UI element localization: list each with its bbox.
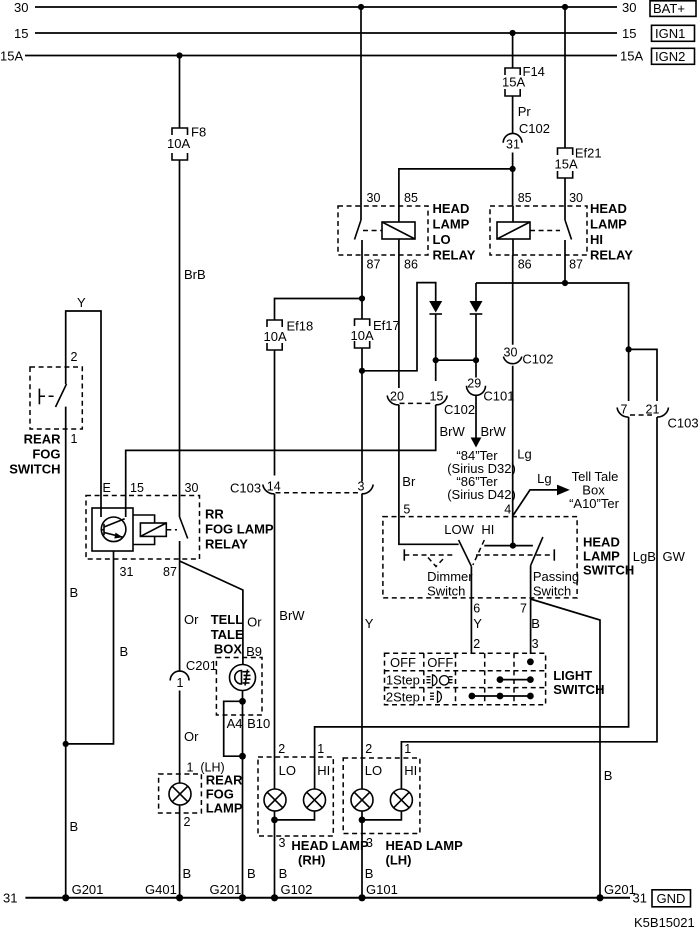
wire HI relay 87 horizontal rail xyxy=(564,255,566,283)
svg-text:Ef18: Ef18 xyxy=(287,319,314,334)
wire D2 anode xyxy=(475,283,477,301)
HI relay coil xyxy=(497,222,530,239)
HI relay switch blade xyxy=(565,220,572,240)
mechanical link dashed V xyxy=(428,558,445,567)
net 15A (IGN2) bus xyxy=(25,55,617,57)
svg-text:HI: HI xyxy=(590,232,603,247)
tell tale lamp circle xyxy=(230,665,256,691)
connector C102 pin 31 xyxy=(503,121,550,152)
label HEAD LAMP (RH) xyxy=(291,838,369,868)
wire to Ef18 xyxy=(275,299,363,321)
node: ground G201 right xyxy=(596,894,603,901)
svg-text:1Step: 1Step xyxy=(386,673,420,688)
svg-text:“A10”Ter: “A10”Ter xyxy=(569,496,620,511)
wire coil feed to LO relay pin 85 xyxy=(399,169,513,206)
fuse F8 10A xyxy=(167,125,206,161)
svg-text:C201: C201 xyxy=(186,658,217,673)
connector C103 pin 21 xyxy=(646,403,699,431)
svg-text:30: 30 xyxy=(504,346,518,360)
net 31 ground bus xyxy=(25,897,630,899)
wire B: passing switch to ground G201 xyxy=(531,599,600,898)
transistor collector xyxy=(104,519,125,527)
svg-text:2: 2 xyxy=(71,350,78,364)
wire between diode outputs xyxy=(436,359,476,361)
icon head lamp row 2Step xyxy=(430,691,441,702)
node: ground G201 center xyxy=(239,894,246,901)
LO relay pin 30 lead xyxy=(360,206,362,220)
wire BrW: C103-14 to head lamp RH LO xyxy=(274,494,276,789)
light switch column 1 box xyxy=(423,653,425,705)
svg-text:G201: G201 xyxy=(604,882,636,897)
svg-text:3: 3 xyxy=(532,637,539,651)
light switch row divider xyxy=(385,670,546,672)
head lamp RH LO bulb xyxy=(264,789,286,811)
svg-text:GND: GND xyxy=(657,891,686,906)
svg-text:Or: Or xyxy=(184,729,199,744)
wire HI contact xyxy=(484,545,533,547)
svg-text:Y: Y xyxy=(473,616,482,631)
svg-text:Pr: Pr xyxy=(518,104,532,119)
wire C102-31 to relay coil feed junction xyxy=(512,153,514,207)
svg-text:2Step: 2Step xyxy=(386,690,420,705)
svg-text:B: B xyxy=(183,866,192,881)
wire Lg: C102-30 to head lamp switch pin 4 xyxy=(512,366,514,546)
node: junction Ef17 out / diode branch xyxy=(359,368,365,374)
svg-text:LAMP: LAMP xyxy=(206,801,243,816)
svg-text:C102: C102 xyxy=(444,402,475,417)
RR relay pin 87 lead xyxy=(179,541,181,671)
wire Ef18 to connector C103-14 xyxy=(274,350,276,476)
wire B: tell tale to ground xyxy=(242,701,244,898)
passing switch pole wire xyxy=(530,566,532,654)
node: pin 4 junction on HI contact xyxy=(510,543,516,549)
svg-text:HEAD LAMP: HEAD LAMP xyxy=(386,838,464,853)
svg-text:15: 15 xyxy=(622,26,636,41)
wire pin A4 loop xyxy=(224,701,243,756)
wire bus15 to fuse F14 xyxy=(512,33,514,68)
svg-text:87: 87 xyxy=(163,565,177,579)
label LIGHT SWITCH xyxy=(553,668,604,697)
svg-text:Switch: Switch xyxy=(533,584,571,599)
light switch 2Step contacts xyxy=(469,693,534,700)
svg-text:31: 31 xyxy=(120,565,134,579)
wire LgB: C103-7 to head lamp RH HI xyxy=(315,417,629,789)
svg-text:(Sirius D42): (Sirius D42) xyxy=(447,487,516,502)
svg-text:B: B xyxy=(70,585,79,600)
relay: RR FOG LAMP RELAY box xyxy=(86,496,200,560)
wire branch to pin 21 xyxy=(629,349,657,401)
svg-text:B10: B10 xyxy=(247,716,270,731)
wire RH common xyxy=(275,811,315,820)
node: junction on 87 rail xyxy=(562,280,568,286)
svg-text:87: 87 xyxy=(367,258,381,272)
label Dimmer Switch xyxy=(427,569,473,599)
RR relay coil xyxy=(140,523,166,536)
svg-text:Y: Y xyxy=(365,616,374,631)
svg-text:2: 2 xyxy=(365,742,372,756)
svg-text:B: B xyxy=(247,866,256,881)
wire Y: C103-3 to head lamp LH LO xyxy=(361,494,363,789)
svg-text:LIGHT: LIGHT xyxy=(553,668,592,683)
svg-text:G401: G401 xyxy=(145,882,177,897)
node: junction to C103-7/21 branch xyxy=(626,346,632,352)
node: junction below pins xyxy=(239,753,246,760)
svg-text:IGN2: IGN2 xyxy=(655,49,685,64)
label "84"Ter (Sirius D32) "86"Ter (Sirius D42) xyxy=(447,448,516,502)
svg-text:BrW: BrW xyxy=(440,424,466,439)
svg-text:30: 30 xyxy=(14,0,28,15)
svg-text:Y: Y xyxy=(77,295,86,310)
net 30 (BAT+) bus xyxy=(35,6,617,8)
svg-text:Ef17: Ef17 xyxy=(373,318,400,333)
transistor base bar xyxy=(103,524,105,536)
svg-text:BAT+: BAT+ xyxy=(653,1,685,16)
svg-text:LO: LO xyxy=(365,763,382,778)
wire Ef17 to connector C103-3 xyxy=(361,348,363,482)
svg-text:Ef21: Ef21 xyxy=(575,146,602,161)
label HEAD LAMP HI RELAY xyxy=(590,201,633,263)
node: junction bus15 / F14 xyxy=(509,30,515,36)
dimmer switch blade xyxy=(459,540,472,566)
svg-text:G201: G201 xyxy=(210,882,242,897)
LO relay pin 87 lead inside xyxy=(361,240,363,255)
svg-text:C103: C103 xyxy=(230,481,261,496)
svg-text:HEAD: HEAD xyxy=(583,535,620,550)
mechanical link right tick xyxy=(553,549,555,560)
svg-text:LOW: LOW xyxy=(444,522,474,537)
svg-text:85: 85 xyxy=(518,191,532,205)
head lamp RH HI bulb xyxy=(304,789,326,811)
node: junction bus30 / LO relay feed xyxy=(358,4,364,10)
rear fog switch contact tick xyxy=(38,389,40,405)
wire Y: dimmer pole to light switch pin 2 xyxy=(470,566,472,654)
HI relay pin 86 lead xyxy=(512,239,514,255)
branch arrow Lg to Tell Tale Box xyxy=(513,485,570,516)
svg-text:TALE: TALE xyxy=(211,627,244,642)
svg-text:B: B xyxy=(604,768,613,783)
BAT+ supply box xyxy=(650,1,696,17)
svg-text:15A: 15A xyxy=(555,157,578,172)
lamp: TELL TALE BOX xyxy=(216,658,262,716)
RR relay coil connection loop bottom xyxy=(133,536,155,544)
rear fog switch pin 1 lead xyxy=(65,407,67,898)
label HEAD LAMP LO RELAY xyxy=(433,201,476,263)
switch: REAR FOG SWITCH box xyxy=(30,367,82,429)
svg-text:SWITCH: SWITCH xyxy=(583,563,634,578)
svg-text:2: 2 xyxy=(278,742,285,756)
svg-text:15: 15 xyxy=(14,26,28,41)
fuse Ef18 10A xyxy=(264,319,314,351)
svg-text:87: 87 xyxy=(569,258,583,272)
connector C103 pin 7 xyxy=(617,403,629,418)
svg-text:BrW: BrW xyxy=(279,608,305,623)
svg-text:31: 31 xyxy=(3,891,17,906)
wire Pr: F14 to connector C102-31 xyxy=(512,96,514,134)
label HEAD LAMP SWITCH xyxy=(583,535,634,578)
dimmer switch HI dashed blade xyxy=(473,540,484,565)
svg-text:LgB: LgB xyxy=(633,549,656,564)
svg-text:HEAD: HEAD xyxy=(590,201,627,216)
svg-text:LAMP: LAMP xyxy=(583,549,620,564)
svg-text:1: 1 xyxy=(71,432,78,446)
svg-text:OFF: OFF xyxy=(427,655,453,670)
svg-text:10A: 10A xyxy=(264,329,287,344)
svg-text:FOG: FOG xyxy=(32,447,60,462)
wire RH common to ground xyxy=(274,820,276,898)
svg-text:30: 30 xyxy=(185,481,199,495)
svg-text:TELL: TELL xyxy=(211,612,244,627)
HI relay pin 30 lead xyxy=(564,206,566,220)
wire tell tale lamp to pins xyxy=(242,691,244,702)
transistor emitter with arrow xyxy=(104,533,123,539)
fuse F14 15A xyxy=(502,64,545,96)
wire rear fog lamp pin 2 to ground xyxy=(179,805,181,898)
svg-text:LAMP: LAMP xyxy=(590,217,627,232)
svg-text:1: 1 xyxy=(177,676,184,690)
label REAR FOG LAMP xyxy=(206,773,243,816)
lamp: REAR FOG LAMP box xyxy=(159,774,202,813)
wire LO relay 87 down through Ef17 xyxy=(361,255,363,319)
node: ground G102 xyxy=(271,894,278,901)
svg-text:2: 2 xyxy=(473,637,480,651)
svg-text:Lg: Lg xyxy=(517,447,531,462)
svg-text:B9: B9 xyxy=(246,644,262,659)
wire LH common to ground xyxy=(361,820,363,898)
svg-text:15A: 15A xyxy=(620,49,643,64)
wire bus30 to Ef21 xyxy=(564,7,566,148)
svg-text:6: 6 xyxy=(473,602,480,616)
svg-text:RELAY: RELAY xyxy=(590,248,633,263)
svg-text:LO: LO xyxy=(279,763,296,778)
svg-text:1: 1 xyxy=(317,742,324,756)
label HEAD LAMP (LH) xyxy=(386,838,464,868)
wire bus30 to LO relay pin 30 xyxy=(360,7,362,206)
svg-text:G101: G101 xyxy=(366,882,398,897)
relay: HEAD LAMP HI RELAY box xyxy=(490,206,587,255)
svg-text:B: B xyxy=(531,616,540,631)
icon low beam row 1Step xyxy=(427,675,453,686)
RR relay coil connection loop top xyxy=(133,515,155,523)
svg-text:SWITCH: SWITCH xyxy=(9,462,60,477)
wire Or: C201 to rear fog lamp xyxy=(179,691,181,784)
connector C101 pin 29 xyxy=(467,377,515,404)
node: ground G101 xyxy=(358,894,365,901)
LO relay pin 86 lead xyxy=(398,239,400,255)
svg-text:3: 3 xyxy=(279,836,286,850)
svg-text:3: 3 xyxy=(358,480,365,494)
svg-text:G102: G102 xyxy=(281,882,313,897)
IGN2 supply box xyxy=(652,48,695,64)
svg-text:BOX: BOX xyxy=(214,642,243,657)
svg-text:HI: HI xyxy=(481,522,494,537)
LO relay pin 85 lead xyxy=(398,206,400,222)
switch: HEAD LAMP SWITCH box xyxy=(383,517,577,598)
HI relay mechanical link dashed xyxy=(530,230,560,232)
wire diode D1 feed loop xyxy=(362,283,436,371)
svg-text:Switch: Switch xyxy=(427,584,465,599)
svg-text:C102: C102 xyxy=(519,121,550,136)
wire D1 cathode down xyxy=(435,314,437,381)
svg-text:REAR: REAR xyxy=(24,432,61,447)
mechanical link dashed right xyxy=(476,554,554,556)
svg-text:1: 1 xyxy=(404,742,411,756)
svg-text:30: 30 xyxy=(569,191,583,205)
svg-text:GW: GW xyxy=(663,549,686,564)
svg-text:29: 29 xyxy=(467,377,481,391)
node: RH lamp common junction xyxy=(271,817,278,824)
svg-text:OFF: OFF xyxy=(390,655,416,670)
wire D2 cathode down xyxy=(475,314,477,378)
connector C102 pin 15 xyxy=(430,390,476,418)
lamp: HEAD LAMP (RH) box xyxy=(258,757,333,836)
RR relay pin 15 lead inside xyxy=(125,508,127,517)
svg-text:20: 20 xyxy=(390,390,404,404)
head lamp LH HI bulb xyxy=(390,789,412,811)
GND box xyxy=(652,890,691,907)
svg-text:30: 30 xyxy=(622,0,636,15)
mechanical link dashed left xyxy=(404,554,455,556)
fuse Ef21 15A xyxy=(555,146,602,179)
svg-text:LAMP: LAMP xyxy=(433,217,470,232)
rear fog switch dashed link xyxy=(40,395,56,397)
node: LH lamp common junction xyxy=(359,817,366,824)
connector C201 pin 1 xyxy=(170,658,217,690)
node: ground G401 xyxy=(176,894,183,901)
wire Or: RR relay 87 branch to tell tale box xyxy=(180,561,243,665)
svg-text:E: E xyxy=(103,481,111,495)
svg-text:BrB: BrB xyxy=(184,267,206,282)
svg-text:Lg: Lg xyxy=(537,471,551,486)
wire Y bracket xyxy=(66,311,101,517)
fuse Ef17 10A xyxy=(351,318,400,348)
svg-text:B: B xyxy=(70,819,79,834)
svg-text:Dimmer: Dimmer xyxy=(427,569,473,584)
arrow to 84 Ter xyxy=(471,438,482,448)
light switch contact column divider xyxy=(513,653,515,705)
svg-text:B: B xyxy=(365,866,374,881)
mechanical link left tick xyxy=(403,549,405,560)
svg-text:A4: A4 xyxy=(227,716,243,731)
connector C103 pin 14 xyxy=(230,480,281,496)
lamp: HEAD LAMP (LH) box xyxy=(343,758,420,834)
svg-text:5: 5 xyxy=(403,503,410,517)
HI relay pin 87 lead inside xyxy=(564,240,566,255)
svg-text:SWITCH: SWITCH xyxy=(553,682,604,697)
wire bus15A to fuse F8 xyxy=(179,56,181,129)
node: D2 output junction xyxy=(473,357,479,363)
svg-text:86: 86 xyxy=(518,258,532,272)
label REAR FOG SWITCH xyxy=(9,432,61,477)
light switch OFF contact dot xyxy=(527,658,534,665)
svg-text:Passing: Passing xyxy=(533,569,579,584)
svg-text:RELAY: RELAY xyxy=(205,537,248,552)
svg-text:F14: F14 xyxy=(523,64,545,79)
svg-text:K5B15021: K5B15021 xyxy=(634,915,695,929)
dashed link C103 7-21 xyxy=(630,414,652,416)
wire BrB: F8 to RR fog lamp relay pin 30 xyxy=(179,160,181,517)
label Passing Switch xyxy=(533,569,579,599)
svg-text:RR: RR xyxy=(205,507,224,522)
svg-text:C103: C103 xyxy=(668,416,699,431)
RR relay switch blade xyxy=(180,517,188,539)
svg-text:7: 7 xyxy=(520,602,527,616)
wire LH common xyxy=(362,811,401,820)
relay: HEAD LAMP LO RELAY box xyxy=(338,206,428,255)
svg-text:15: 15 xyxy=(130,481,144,495)
connector C103 pin 3 xyxy=(358,480,374,494)
node: junction bus15A / F8 xyxy=(176,52,182,58)
svg-text:F8: F8 xyxy=(191,125,206,140)
rear fog lamp bulb xyxy=(169,783,191,805)
svg-text:C101: C101 xyxy=(483,389,514,404)
svg-text:HI: HI xyxy=(404,763,417,778)
svg-text:B: B xyxy=(120,644,129,659)
svg-text:HEAD LAMP: HEAD LAMP xyxy=(291,838,369,853)
IGN1 supply box xyxy=(652,25,695,41)
dashed link C102 20-15 xyxy=(400,402,435,404)
svg-text:REAR: REAR xyxy=(206,773,243,788)
wire Ef21 to HI relay pin 30 xyxy=(564,178,566,206)
svg-text:Br: Br xyxy=(402,474,416,489)
svg-text:C102: C102 xyxy=(522,352,553,367)
node: D1/D2 junction xyxy=(433,357,439,363)
svg-text:Or: Or xyxy=(247,615,262,630)
wire Br: C102-20 to head lamp switch pin 5 xyxy=(399,405,459,545)
svg-text:HI: HI xyxy=(317,763,330,778)
svg-text:85: 85 xyxy=(404,191,418,205)
node: junction 87 / Ef18 feed xyxy=(359,295,365,301)
svg-text:FOG: FOG xyxy=(206,787,234,802)
svg-text:15: 15 xyxy=(430,390,444,404)
diode D1 xyxy=(429,301,442,314)
node: ground G201 left xyxy=(62,894,69,901)
tell tale headlamp icon xyxy=(235,670,251,686)
light switch 1Step contacts xyxy=(497,676,534,683)
svg-text:IGN1: IGN1 xyxy=(655,26,685,41)
RR relay transistor circle xyxy=(101,517,126,542)
rear fog switch blade xyxy=(56,384,67,407)
net 15 (IGN1) bus xyxy=(35,32,617,34)
svg-text:10A: 10A xyxy=(351,328,374,343)
svg-text:RELAY: RELAY xyxy=(433,248,476,263)
svg-text:HEAD: HEAD xyxy=(433,201,470,216)
wire B: RR relay 31 to ground join xyxy=(66,559,114,744)
HI relay pin 85 lead xyxy=(512,206,514,222)
transistor base lead xyxy=(101,529,104,531)
connector C102 pin 30 xyxy=(503,346,553,367)
wire 87 rail to right drop xyxy=(476,283,629,401)
svg-text:14: 14 xyxy=(267,480,281,494)
passing switch blade xyxy=(531,537,543,566)
svg-text:G201: G201 xyxy=(72,882,104,897)
head lamp LH LO bulb xyxy=(351,789,373,811)
connector C102 pin 20 xyxy=(387,390,404,405)
light switch column 2 box xyxy=(455,653,457,705)
svg-text:B: B xyxy=(279,866,288,881)
light switch contact column divider xyxy=(484,653,486,705)
svg-text:LO: LO xyxy=(433,232,451,247)
node: junction bus30 / Ef21 feed xyxy=(562,4,568,10)
svg-text:2: 2 xyxy=(184,815,191,829)
wire LO relay 86 to connector C102-20 xyxy=(398,255,400,388)
node: coil feed junction xyxy=(509,166,515,172)
label RR FOG LAMP RELAY xyxy=(205,507,274,552)
label TELL TALE BOX xyxy=(211,612,244,657)
svg-text:30: 30 xyxy=(367,191,381,205)
svg-text:15A: 15A xyxy=(0,49,23,64)
node: junction pin31 wire / B wire xyxy=(63,741,69,747)
RR relay driver box xyxy=(92,508,133,551)
